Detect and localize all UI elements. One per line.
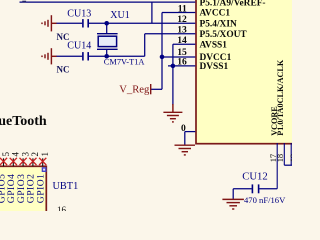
node junction crystal top xyxy=(104,21,109,26)
wire CU12 to ground xyxy=(232,189,234,200)
svg-text:19: 19 xyxy=(289,154,292,162)
capacitor CU14 xyxy=(82,52,84,60)
svg-text:470 nF/16V: 470 nF/16V xyxy=(244,195,286,205)
wire pin 18 stub xyxy=(283,143,285,165)
svg-text:3: 3 xyxy=(20,152,30,157)
wire pin 17 VCORE stub xyxy=(276,143,278,189)
wire pin 18 exit right xyxy=(284,164,292,166)
svg-text:12: 12 xyxy=(177,14,187,25)
svg-text:AVCC1: AVCC1 xyxy=(200,9,231,19)
wire pin 15 DVCC1 xyxy=(162,56,195,58)
svg-text:P5.5/XOUT: P5.5/XOUT xyxy=(200,30,248,40)
svg-text:DVSS1: DVSS1 xyxy=(200,62,229,72)
wire XOUT row left of cap CU14 xyxy=(56,55,82,57)
wire pin 19 stub xyxy=(290,143,292,165)
svg-text:NC: NC xyxy=(57,64,70,74)
svg-text:ueTooth: ueTooth xyxy=(0,114,47,129)
svg-text:P5.1/A9/VeREF-: P5.1/A9/VeREF- xyxy=(200,0,266,8)
pin designators U1 xyxy=(177,3,187,134)
ground symbol NC1 (rotated, CU13) xyxy=(42,15,57,31)
svg-text:XU1: XU1 xyxy=(110,10,129,21)
svg-text:CM7V-T1A: CM7V-T1A xyxy=(104,57,145,66)
connector UBT1 pins with no-ERC X marks xyxy=(4,158,43,166)
wire pin 0 (pad) xyxy=(185,131,196,133)
capacitor CU12 xyxy=(233,188,252,190)
node junction DVSS1 xyxy=(171,64,176,69)
ground symbol G2 (pad ground) xyxy=(175,145,196,155)
wire XIN row left of cap CU13 xyxy=(56,22,82,24)
svg-text:5: 5 xyxy=(1,152,11,157)
wire net P5.1/A9/VeREF- (pin 10 row) xyxy=(20,1,196,3)
svg-text:11: 11 xyxy=(178,3,187,14)
svg-text:16: 16 xyxy=(177,57,187,68)
node junction crystal bottom xyxy=(104,54,109,59)
wire pin 16 DVSS1 xyxy=(168,65,195,67)
svg-text:V_Reg: V_Reg xyxy=(119,85,150,96)
svg-text:0: 0 xyxy=(181,123,186,134)
no-ERC X marks xyxy=(0,158,46,165)
wire AVSS1/DVSS1 vertical to ground xyxy=(172,44,174,105)
wire junction to crystal xyxy=(106,23,108,33)
node marker UBT1 corner xyxy=(42,167,47,172)
op-amp U1 body (MSP430 chip body) xyxy=(196,0,306,144)
wire XIN row right of cap CU13 to pin 12 xyxy=(89,22,195,24)
wire pin 11 AVCC1 xyxy=(162,12,195,14)
svg-text:1: 1 xyxy=(40,152,50,157)
svg-text:18: 18 xyxy=(276,154,285,162)
pin names U1 xyxy=(200,0,266,72)
node junction DVCC1 xyxy=(160,55,165,60)
connector UBT1 body xyxy=(0,166,46,216)
wire vertical link pin10 to XIN row xyxy=(151,2,153,23)
ground symbol G3 (VCORE cap) xyxy=(222,199,244,209)
ground symbol NC2 (rotated, CU14) xyxy=(42,48,57,64)
svg-text:NC: NC xyxy=(57,32,70,42)
capacitor CU13 xyxy=(82,19,84,27)
UBT1 pin names GPIO5..GPIO1 (vertical) xyxy=(0,174,47,204)
svg-text:4: 4 xyxy=(11,152,21,157)
svg-text:14: 14 xyxy=(177,35,187,46)
svg-text:P1.0/TA0CLK/ACLK: P1.0/TA0CLK/ACLK xyxy=(276,59,285,136)
svg-text:UBT1: UBT1 xyxy=(53,181,79,192)
svg-text:CU13: CU13 xyxy=(67,9,91,20)
svg-text:P5.4/XIN: P5.4/XIN xyxy=(200,20,237,30)
svg-text:CU12: CU12 xyxy=(242,170,268,182)
power port V_Reg xyxy=(150,84,152,94)
wire crystal bottom link xyxy=(106,49,108,56)
svg-text:CU14: CU14 xyxy=(67,41,91,52)
svg-text:AVSS1: AVSS1 xyxy=(200,40,228,50)
wire V_Reg horizontal xyxy=(151,88,162,90)
wire XOUT corner up xyxy=(144,34,146,57)
node cut-off label remnant above wire xyxy=(22,1,26,3)
wire pin 14 AVSS1 xyxy=(173,43,195,45)
svg-text:2: 2 xyxy=(30,152,40,157)
svg-text:13: 13 xyxy=(177,24,187,35)
UBT1 pin designators (vertical) xyxy=(1,152,50,157)
crystal XU1 xyxy=(97,33,118,35)
wire XOUT row right of cap CU14 xyxy=(89,55,145,57)
ground symbol G1 (AVSS/DVSS) xyxy=(163,104,182,122)
wire XOUT to pin 13 xyxy=(145,33,196,35)
wire AVCC1/DVCC1 vertical to V_Reg xyxy=(161,13,163,90)
svg-text:GPIO1: GPIO1 xyxy=(36,174,47,204)
svg-text:16: 16 xyxy=(57,205,67,211)
